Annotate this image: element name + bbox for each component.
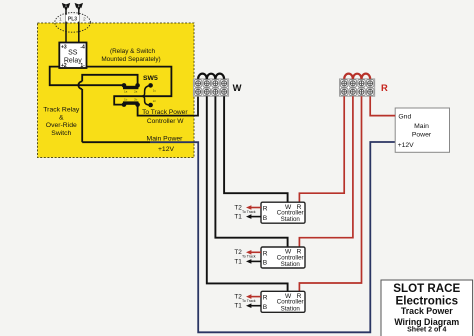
svg-text:T1: T1 (234, 214, 242, 221)
controller station 1 (234, 202, 305, 223)
svg-text:2c: 2c (153, 99, 157, 103)
wire R bus to controller station 3 (R) (299, 96, 361, 291)
connector plug pin 2 (fork symbol) (75, 3, 83, 9)
svg-text:1c: 1c (153, 89, 157, 93)
svg-text:(Relay & Switch: (Relay & Switch (110, 48, 156, 55)
svg-text:-4: -4 (80, 45, 85, 51)
svg-text:Gnd: Gnd (398, 114, 411, 121)
arrow T2 (red, to track) (249, 251, 261, 253)
wire R bus to controller station 1 (R) (299, 96, 344, 202)
jumper arcs on W block (198, 74, 224, 79)
svg-text:R: R (381, 82, 388, 93)
arrow T1 (black, to track) (249, 216, 261, 218)
svg-text:R: R (263, 295, 268, 302)
svg-text:1: 1 (59, 16, 62, 21)
wire main power +12V (black segment inside enclosure) (82, 141, 150, 143)
svg-text:T1: T1 (234, 303, 242, 310)
arrow T2 (red, to track) (249, 207, 261, 209)
wire switch pole b to track power controller W terminal (138, 96, 198, 115)
svg-text:Mounted Separately): Mounted Separately) (101, 56, 160, 63)
connector plug pin 1 (fork symbol) (62, 3, 70, 9)
label PL3 (66, 15, 80, 22)
terminal block R (340, 79, 375, 96)
svg-text:Over-Ride: Over-Ride (46, 122, 77, 129)
wire W bus to controller station 2 (W) (215, 96, 287, 247)
wire PL3 pin1 to relay +3 (65, 8, 67, 43)
svg-text:+12V: +12V (398, 142, 415, 149)
svg-text:SW5: SW5 (143, 75, 158, 82)
svg-text:To Track: To Track (242, 255, 256, 259)
svg-text:R: R (263, 206, 268, 213)
wire +12V riser to switch upper bar right contact (hops over relay wire) (81, 89, 83, 142)
terminal block W (193, 79, 228, 96)
relay U1 (SS Relay box) (59, 43, 86, 69)
svg-text:To Track Power: To Track Power (142, 109, 188, 116)
wire W bus to controller station 3 (W) (207, 96, 288, 291)
svg-text:+3: +3 (61, 45, 67, 51)
svg-text:Station: Station (281, 305, 301, 312)
main power supply box (395, 108, 449, 152)
svg-text:Sheet 2 of 4: Sheet 2 of 4 (407, 327, 446, 334)
arrow T2 (red, to track) (249, 296, 261, 298)
svg-text:SLOT RACE: SLOT RACE (393, 282, 460, 295)
svg-text:&: & (59, 114, 64, 121)
arrow T1 (black, to track) (249, 260, 261, 262)
svg-text:Track Relay: Track Relay (43, 107, 80, 114)
controller station 2 (234, 247, 305, 268)
svg-text:B: B (263, 215, 268, 222)
svg-text:1b: 1b (124, 97, 128, 101)
svg-text:+2: +2 (61, 63, 67, 69)
svg-text:Station: Station (281, 261, 301, 268)
controller station 3 (234, 291, 305, 312)
svg-text:Power: Power (412, 131, 432, 138)
wire relay pin +2 left-down to switch pole 1a (50, 67, 124, 86)
svg-text:SS: SS (68, 50, 78, 57)
svg-text:Station: Station (281, 216, 301, 223)
svg-text:1-: 1- (80, 63, 85, 69)
svg-text:B: B (263, 304, 268, 311)
svg-text:Track Power: Track Power (401, 306, 453, 316)
wire R bus to controller station 2 (R) (299, 96, 353, 247)
svg-text:1a: 1a (124, 90, 128, 94)
svg-text:Main: Main (414, 123, 429, 130)
wire PL3 pin2 to relay -4 (78, 8, 80, 43)
svg-text:PL3: PL3 (68, 16, 77, 22)
wire W bus to controller station 1 (W) (224, 96, 288, 202)
svg-text:W: W (233, 82, 242, 93)
wire R block col4 to main power Gnd (370, 96, 395, 115)
switch SW5 upper bar (pole a) (122, 83, 140, 94)
svg-text:+12V: +12V (158, 146, 175, 153)
svg-text:Controller W: Controller W (147, 118, 184, 125)
connector PL3 dashed ellipse (55, 13, 91, 33)
svg-text:T1: T1 (234, 258, 242, 265)
wire relay pin 1- right-down to switch common 2c (87, 67, 172, 105)
svg-text:2a: 2a (134, 90, 138, 94)
svg-text:2b: 2b (134, 97, 138, 101)
svg-text:R: R (263, 250, 268, 257)
svg-text:To Track: To Track (242, 210, 256, 214)
svg-text:2: 2 (83, 16, 86, 21)
switch SW5 lower bar (pole b) (122, 97, 140, 106)
switch SW5 selector brace (pole c) (142, 86, 151, 106)
track relay & over-ride switch enclosure (yellow dashed box) (38, 23, 195, 158)
jumper arcs on R block (344, 74, 370, 79)
wire main power +12V (navy loop: left riser, bottom run, right riser) (150, 142, 395, 332)
svg-text:To Track: To Track (242, 299, 256, 303)
arrow T1 (black, to track) (249, 305, 261, 307)
svg-text:B: B (263, 260, 268, 267)
svg-text:Switch: Switch (51, 130, 71, 137)
title block (381, 280, 473, 336)
